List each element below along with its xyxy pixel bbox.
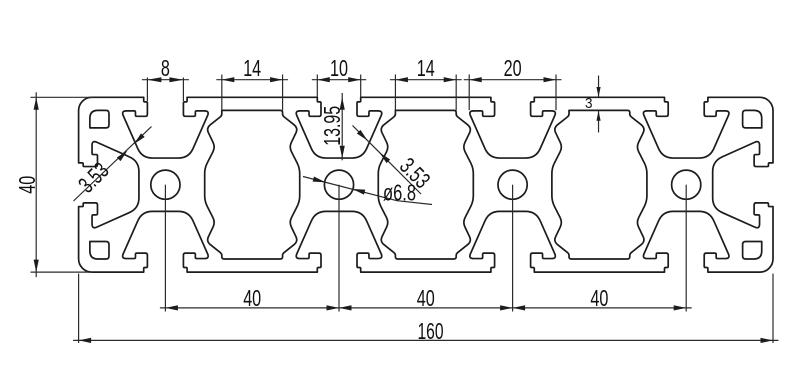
svg-text:3: 3	[585, 95, 593, 112]
dimension 14 (cavity top width) extension lines	[221, 75, 223, 111]
octagonal core cavity 3	[552, 110, 647, 259]
dimension 40 line vertical	[35, 92, 37, 277]
svg-text:160: 160	[418, 318, 444, 344]
dimension 20 (T-slot internal width) extension lines	[468, 75, 470, 111]
corner screw cavity bottom-right	[743, 242, 762, 259]
svg-text:20: 20	[504, 55, 522, 81]
svg-text:40: 40	[243, 285, 261, 311]
center bore hole 3 (Ø6.8)	[498, 170, 527, 199]
svg-text:10: 10	[330, 55, 348, 81]
svg-text:40: 40	[590, 285, 608, 311]
center bore hole 2 (Ø6.8)	[324, 170, 353, 199]
dimension 3.53 web thickness #1 line	[74, 127, 152, 202]
dimension 8 (slot opening) extension lines	[146, 78, 148, 102]
octagonal core cavity 1	[205, 110, 300, 259]
corner screw cavity top-right	[743, 110, 762, 127]
corner screw cavity bottom-left	[90, 242, 109, 259]
svg-text:40: 40	[14, 176, 40, 194]
svg-text:ø6.8: ø6.8	[383, 180, 416, 206]
hole center extension lines	[164, 185, 166, 312]
dimension 14 line (cavity 2)	[390, 79, 462, 81]
dimension 10 (slot mouth) extension lines	[316, 75, 318, 97]
dimension 20 line	[464, 79, 562, 81]
svg-text:8: 8	[161, 55, 170, 81]
dimension 3.53 web thickness #2 line	[353, 126, 422, 195]
svg-text:14: 14	[417, 55, 435, 81]
center bore hole 4 (Ø6.8)	[672, 170, 701, 199]
corner screw cavity top-left	[90, 110, 109, 127]
svg-text:40: 40	[417, 285, 435, 311]
dimension 8 line with arrows	[142, 79, 189, 81]
dimension 160 line	[73, 339, 778, 341]
outer profile contour	[79, 97, 773, 272]
octagonal core cavity 2	[378, 110, 473, 259]
dimension 40 chain line	[160, 307, 692, 309]
svg-text:14: 14	[243, 55, 261, 81]
center bore hole 1 (Ø6.8)	[151, 170, 180, 199]
dimension 14 (cavity 2 top width) extension lines	[394, 75, 396, 111]
dimension Ø6.8 hole leader	[303, 177, 432, 205]
dimension 13.95 line	[341, 93, 343, 160]
svg-text:13.95: 13.95	[319, 106, 345, 146]
dimension 40 (height) extension lines	[31, 96, 93, 98]
dimension 14 line	[216, 79, 288, 81]
overall width extension lines	[78, 274, 80, 343]
dimension 3 (wall thickness) leader lines	[598, 76, 600, 97]
dimension 10 line	[312, 79, 366, 81]
